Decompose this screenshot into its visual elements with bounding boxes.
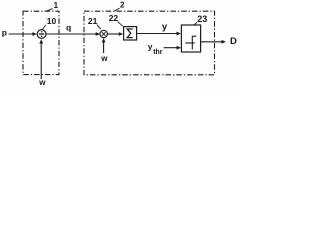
step symbol high level: [192, 35, 196, 37]
arrowhead into multiplier: [96, 32, 100, 36]
svg-text:y: y: [162, 21, 168, 32]
svg-text:y: y: [148, 41, 153, 51]
pointer line to box 1: [46, 9, 52, 12]
times mark inside multiplier: [102, 32, 106, 36]
svg-text:1: 1: [54, 1, 59, 10]
multiplier circle 21: [100, 30, 107, 37]
pointer line to box 2: [114, 8, 120, 11]
svg-text:w: w: [38, 78, 46, 87]
wire y_thr to comparator: [164, 47, 178, 49]
plus mark inside adder: [39, 33, 44, 35]
wire q adder to multiplier: [46, 33, 97, 35]
wire y summator to comparator: [137, 33, 178, 35]
svg-text:q: q: [66, 23, 71, 33]
wire w up into multiplier: [103, 41, 105, 53]
summator box 22: [124, 27, 137, 40]
wire D comparator output: [201, 41, 223, 43]
pointer line to adder: [42, 25, 45, 29]
step symbol axis: [185, 42, 195, 44]
svg-text:2: 2: [120, 1, 125, 10]
adder circle 10: [37, 30, 46, 39]
pointer line to comparator: [194, 22, 197, 25]
dashed box 2 (detector): [84, 11, 215, 75]
pointer line to summator: [118, 22, 123, 27]
wire w up into adder: [40, 43, 42, 79]
arrowhead into adder: [32, 32, 36, 36]
arrowhead into comparator lower input: [177, 46, 181, 50]
step symbol jump: [191, 36, 193, 50]
wire p to adder: [9, 33, 34, 35]
svg-text:p: p: [2, 28, 7, 38]
svg-text:w: w: [100, 54, 108, 63]
wire multiplier to summator: [107, 33, 119, 35]
arrowhead into multiplier bottom: [102, 38, 106, 42]
arrowhead at D: [222, 40, 226, 44]
svg-text:23: 23: [197, 14, 207, 24]
svg-text:D: D: [230, 36, 237, 47]
arrowhead into adder bottom: [39, 39, 43, 43]
pointer line to multiplier: [97, 25, 101, 30]
svg-text:thr: thr: [153, 49, 163, 56]
comparator box 23: [181, 25, 200, 52]
arrowhead into comparator: [177, 32, 181, 36]
arrowhead into summator: [119, 32, 123, 36]
svg-text:10: 10: [47, 16, 57, 26]
svg-text:22: 22: [109, 13, 119, 23]
sigma symbol: [127, 29, 132, 38]
svg-text:21: 21: [88, 16, 98, 26]
dashed box 1 (embedder): [23, 11, 59, 74]
